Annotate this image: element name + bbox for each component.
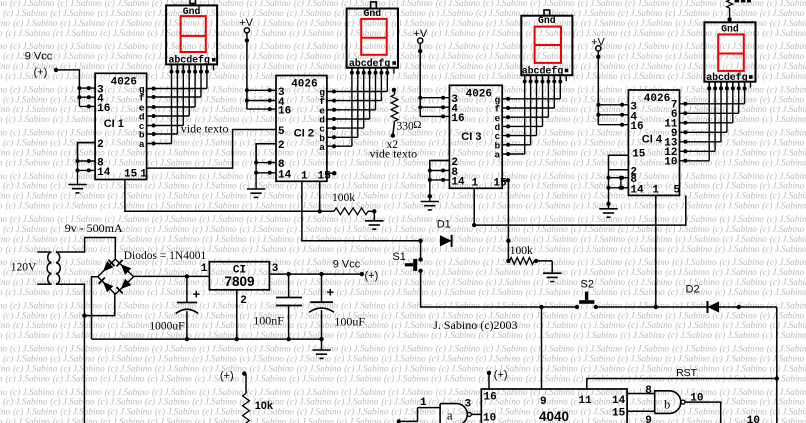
svg-text:(c) J.Sabino: (c) J.Sabino	[625, 41, 670, 51]
wire CI 1 pin 15 reset line to 100k	[125, 180, 334, 212]
IC CI 3 left pin labels 2 8 14	[451, 157, 465, 188]
svg-text:(c) J.Sabino: (c) J.Sabino	[713, 267, 758, 277]
svg-text:(c) J.Sabino: (c) J.Sabino	[0, 417, 3, 423]
display DISP1 7-segment module	[166, 5, 217, 64]
svg-text:(c) J.Sabino: (c) J.Sabino	[760, 310, 805, 320]
IC CI 4 bottom pin labels	[652, 184, 680, 196]
svg-text:(c) J.Sabino: (c) J.Sabino	[479, 28, 524, 38]
svg-text:(c) J.Sabino: (c) J.Sabino	[105, 344, 150, 354]
wire R1 to ground	[368, 209, 376, 220]
capacitor C2 100nF	[276, 274, 302, 339]
svg-text:(c) J.Sabino: (c) J.Sabino	[578, 257, 623, 267]
svg-text:(c) J.Sabino: (c) J.Sabino	[289, 244, 334, 254]
svg-text:(c) J.Sabino: (c) J.Sabino	[50, 354, 95, 364]
svg-text:15: 15	[632, 148, 646, 160]
svg-text:(c) J.Sabino: (c) J.Sabino	[388, 344, 433, 354]
svg-text:(c) J.Sabino: (c) J.Sabino	[10, 344, 55, 354]
svg-text:(c) J.Sabino: (c) J.Sabino	[3, 181, 48, 191]
svg-text:Gnd: Gnd	[363, 8, 381, 19]
svg-text:(c) J.Sabino: (c) J.Sabino	[578, 128, 623, 138]
svg-text:(c) J.Sabino: (c) J.Sabino	[483, 300, 528, 310]
svg-text:(c) J.Sabino: (c) J.Sabino	[242, 201, 287, 211]
svg-text:(c) J.Sabino: (c) J.Sabino	[713, 224, 758, 234]
svg-text:(c) J.Sabino: (c) J.Sabino	[10, 128, 55, 138]
svg-text:(c) J.Sabino: (c) J.Sabino	[384, 330, 429, 340]
svg-text:(c) J.Sabino: (c) J.Sabino	[297, 407, 342, 417]
svg-text:(c) J.Sabino: (c) J.Sabino	[289, 28, 334, 38]
svg-text:(c) J.Sabino: (c) J.Sabino	[0, 71, 3, 81]
svg-text:(c) J.Sabino: (c) J.Sabino	[665, 310, 710, 320]
4040 pin labels	[483, 392, 626, 423]
svg-text:CI 1: CI 1	[104, 118, 124, 130]
svg-text:(c) J.Sabino: (c) J.Sabino	[439, 18, 484, 28]
wire segment staircase CI 1 to DISP1	[147, 72, 207, 146]
diode D1	[440, 235, 452, 247]
svg-text:D1: D1	[437, 219, 451, 231]
svg-text:9 Vcc: 9 Vcc	[333, 258, 361, 270]
IC U1 4026 decade counter CI 1 box	[95, 73, 147, 179]
svg-text:(c) J.Sabino: (c) J.Sabino	[388, 387, 433, 397]
node S1 top junction	[418, 239, 422, 243]
wire S1 to S2/D2 net	[421, 271, 577, 307]
svg-text:(c) J.Sabino: (c) J.Sabino	[13, 18, 58, 28]
svg-text:(c) J.Sabino: (c) J.Sabino	[0, 330, 3, 340]
svg-text:(c) J.Sabino: (c) J.Sabino	[675, 320, 720, 330]
svg-text:J. Sabino (c)2003: J. Sabino (c)2003	[433, 318, 517, 332]
svg-text:(c) J.Sabino: (c) J.Sabino	[287, 8, 332, 18]
node 9Vcc output terminal	[333, 258, 379, 282]
wire secondary bottom (AC tap) long vertical	[56, 284, 85, 423]
svg-text:15: 15	[612, 407, 626, 419]
svg-text:(c) J.Sabino: (c) J.Sabino	[429, 267, 474, 277]
svg-text:(c) J.Sabino: (c) J.Sabino	[381, 181, 426, 191]
svg-text:(c) J.Sabino: (c) J.Sabino	[762, 201, 806, 211]
svg-text:S1: S1	[392, 251, 405, 263]
svg-text:(c) J.Sabino: (c) J.Sabino	[760, 51, 805, 61]
svg-text:(c) J.Sabino: (c) J.Sabino	[571, 138, 616, 148]
svg-text:(c) J.Sabino: (c) J.Sabino	[668, 28, 713, 38]
svg-text:(c) J.Sabino: (c) J.Sabino	[526, 157, 571, 167]
resistor R2 100k	[506, 258, 552, 273]
junction dots power pins CI 4	[596, 103, 624, 127]
svg-text:16: 16	[451, 113, 464, 125]
svg-text:(c) J.Sabino: (c) J.Sabino	[105, 41, 150, 51]
capacitor C3 100uF electrolytic	[309, 274, 334, 339]
svg-text:(c) J.Sabino: (c) J.Sabino	[665, 8, 710, 18]
svg-text:(c) J.Sabino: (c) J.Sabino	[0, 84, 7, 94]
svg-text:(c) J.Sabino: (c) J.Sabino	[337, 417, 382, 423]
svg-text:(c) J.Sabino: (c) J.Sabino	[760, 181, 805, 191]
svg-text:(c) J.Sabino: (c) J.Sabino	[53, 28, 98, 38]
svg-text:(c) J.Sabino: (c) J.Sabino	[250, 191, 295, 201]
wire +V to CI 2 power bus	[246, 33, 248, 109]
svg-text:(c) J.Sabino: (c) J.Sabino	[341, 344, 386, 354]
svg-text:1: 1	[140, 169, 147, 181]
svg-text:(c) J.Sabino: (c) J.Sabino	[762, 417, 806, 423]
node CI 3 ground bus bottom dot	[428, 194, 432, 198]
svg-text:(c) J.Sabino: (c) J.Sabino	[242, 244, 287, 254]
svg-text:(c) J.Sabino: (c) J.Sabino	[3, 138, 48, 148]
svg-text:(c) J.Sabino: (c) J.Sabino	[13, 320, 58, 330]
svg-text:(c) J.Sabino: (c) J.Sabino	[337, 330, 382, 340]
svg-text:(c) J.Sabino: (c) J.Sabino	[155, 363, 200, 373]
svg-text:(c) J.Sabino: (c) J.Sabino	[573, 71, 618, 81]
wire 7809 output 9Vcc row	[269, 273, 361, 275]
svg-text:(c) J.Sabino: (c) J.Sabino	[620, 71, 665, 81]
svg-text:(c) J.Sabino: (c) J.Sabino	[3, 224, 48, 234]
svg-text:(c) J.Sabino: (c) J.Sabino	[57, 344, 102, 354]
svg-text:(c) J.Sabino: (c) J.Sabino	[762, 157, 806, 167]
svg-text:(c) J.Sabino: (c) J.Sabino	[762, 114, 806, 124]
svg-text:(c) J.Sabino: (c) J.Sabino	[762, 28, 806, 38]
svg-text:(c) J.Sabino: (c) J.Sabino	[287, 267, 332, 277]
svg-text:(c) J.Sabino: (c) J.Sabino	[152, 41, 197, 51]
svg-text:(c) J.Sabino: (c) J.Sabino	[199, 84, 244, 94]
svg-text:(c) J.Sabino: (c) J.Sabino	[767, 214, 806, 224]
IC U4 4026 decade counter CI 4 box	[628, 90, 679, 195]
display DISP3 red segment figure	[535, 27, 561, 63]
capacitor C1 1000uF electrolytic	[176, 276, 198, 339]
node (+) 9Vcc supply top-left	[25, 51, 53, 79]
svg-text:(c) J.Sabino: (c) J.Sabino	[720, 41, 765, 51]
svg-text:(c) J.Sabino: (c) J.Sabino	[152, 171, 197, 181]
svg-text:(c) J.Sabino: (c) J.Sabino	[767, 344, 806, 354]
svg-text:(c) J.Sabino: (c) J.Sabino	[108, 363, 153, 373]
svg-text:(c) J.Sabino: (c) J.Sabino	[439, 363, 484, 373]
svg-text:(c) J.Sabino: (c) J.Sabino	[436, 344, 481, 354]
svg-text:(c) J.Sabino: (c) J.Sabino	[625, 214, 670, 224]
svg-text:(c) J.Sabino: (c) J.Sabino	[767, 257, 806, 267]
svg-text:(c) J.Sabino: (c) J.Sabino	[620, 201, 665, 211]
svg-text:(c) J.Sabino: (c) J.Sabino	[431, 71, 476, 81]
svg-text:(c) J.Sabino: (c) J.Sabino	[294, 214, 339, 224]
svg-text:(c) J.Sabino: (c) J.Sabino	[0, 171, 7, 181]
svg-text:(c) J.Sabino: (c) J.Sabino	[155, 18, 200, 28]
svg-text:(c) J.Sabino: (c) J.Sabino	[0, 257, 7, 267]
junction dots power pins CI 2	[245, 88, 272, 111]
svg-text:(c) J.Sabino: (c) J.Sabino	[294, 344, 339, 354]
svg-text:+V: +V	[591, 37, 605, 49]
svg-text:14: 14	[97, 167, 111, 179]
IC CI 1 right segment pin labels	[139, 84, 145, 150]
svg-text:(c) J.Sabino: (c) J.Sabino	[98, 8, 143, 18]
svg-text:(c) J.Sabino: (c) J.Sabino	[195, 417, 240, 423]
svg-text:(c) J.Sabino: (c) J.Sabino	[294, 41, 339, 51]
IC CI 1 bottom pin labels	[124, 169, 147, 181]
svg-text:(c) J.Sabino: (c) J.Sabino	[334, 354, 379, 364]
svg-text:(c) J.Sabino: (c) J.Sabino	[152, 387, 197, 397]
svg-text:(c) J.Sabino: (c) J.Sabino	[523, 310, 568, 320]
junction dots power pins CI 3	[418, 96, 445, 119]
svg-text:(c) J.Sabino: (c) J.Sabino	[620, 244, 665, 254]
display DISP4 top resistor (clipped) and wire	[727, 0, 751, 22]
svg-text:(c) J.Sabino: (c) J.Sabino	[0, 157, 3, 167]
svg-text:vide texto: vide texto	[370, 146, 418, 160]
svg-text:(c) J.Sabino: (c) J.Sabino	[628, 234, 673, 244]
svg-text:(c) J.Sabino: (c) J.Sabino	[250, 18, 295, 28]
svg-text:CI 2: CI 2	[294, 128, 314, 140]
svg-text:14: 14	[630, 184, 644, 196]
wire RST vertical right side	[776, 307, 778, 423]
svg-text:100uF: 100uF	[334, 314, 365, 328]
ground symbol of CI 1	[68, 185, 86, 193]
svg-text:(c) J.Sabino: (c) J.Sabino	[202, 104, 247, 114]
svg-text:(c) J.Sabino: (c) J.Sabino	[530, 344, 575, 354]
svg-text:(c) J.Sabino: (c) J.Sabino	[479, 201, 524, 211]
node 100nF junction	[286, 272, 290, 276]
svg-text:2: 2	[97, 139, 104, 151]
svg-text:(c) J.Sabino: (c) J.Sabino	[240, 354, 285, 364]
wire rail to ground	[321, 339, 323, 349]
wire CI 4 pin 1 down	[655, 195, 657, 307]
svg-text:(c) J.Sabino: (c) J.Sabino	[50, 267, 95, 277]
svg-text:(c) J.Sabino: (c) J.Sabino	[247, 344, 292, 354]
display DISP3 7-segment module	[521, 16, 572, 75]
switch S1 (pushbutton)	[405, 241, 423, 273]
svg-text:(c) J.Sabino: (c) J.Sabino	[50, 397, 95, 407]
display DISP1 pin letters abcdefg.	[168, 55, 215, 67]
svg-text:(c) J.Sabino: (c) J.Sabino	[53, 373, 98, 383]
svg-text:(c) J.Sabino: (c) J.Sabino	[720, 171, 765, 181]
svg-text:(c) J.Sabino: (c) J.Sabino	[429, 51, 474, 61]
svg-text:(c) J.Sabino: (c) J.Sabino	[108, 104, 153, 114]
IC CI 1 left pin labels 3 4 16	[97, 85, 110, 115]
svg-text:Diodos = 1N4001: Diodos = 1N4001	[124, 250, 207, 262]
svg-text:(c) J.Sabino: (c) J.Sabino	[108, 234, 153, 244]
svg-text:(c) J.Sabino: (c) J.Sabino	[0, 363, 10, 373]
svg-text:(c) J.Sabino: (c) J.Sabino	[533, 191, 578, 201]
svg-text:(c) J.Sabino: (c) J.Sabino	[152, 344, 197, 354]
svg-text:(c) J.Sabino: (c) J.Sabino	[98, 51, 143, 61]
svg-text:(c) J.Sabino: (c) J.Sabino	[145, 397, 190, 407]
svg-text:9: 9	[540, 396, 547, 408]
svg-text:(c) J.Sabino: (c) J.Sabino	[672, 214, 717, 224]
svg-text:(c) J.Sabino: (c) J.Sabino	[571, 267, 616, 277]
node 100uF junction	[319, 272, 323, 276]
svg-text:(c) J.Sabino: (c) J.Sabino	[767, 0, 806, 8]
svg-text:(c) J.Sabino: (c) J.Sabino	[381, 224, 426, 234]
wire +V to CI 3 power bus	[419, 43, 421, 116]
svg-text:(c) J.Sabino: (c) J.Sabino	[723, 234, 768, 244]
svg-text:100k: 100k	[510, 245, 533, 257]
label 330 ohm	[397, 119, 422, 133]
svg-text:(c) J.Sabino: (c) J.Sabino	[145, 181, 190, 191]
node 4040 pin9 branch	[539, 305, 543, 309]
svg-text:(c) J.Sabino: (c) J.Sabino	[202, 407, 247, 417]
display DISP2 pin letters abcdefg.	[349, 58, 396, 70]
svg-text:(c) J.Sabino: (c) J.Sabino	[573, 244, 618, 254]
svg-text:(c) J.Sabino: (c) J.Sabino	[247, 387, 292, 397]
svg-text:(c) J.Sabino: (c) J.Sabino	[341, 214, 386, 224]
svg-text:(+): (+)	[34, 67, 48, 79]
IC CI 1 left pin labels 2 8 14	[97, 139, 111, 179]
svg-text:(c) J.Sabino: (c) J.Sabino	[294, 387, 339, 397]
svg-text:(c) J.Sabino: (c) J.Sabino	[0, 28, 3, 38]
svg-text:(c) J.Sabino: (c) J.Sabino	[571, 8, 616, 18]
svg-text:(c) J.Sabino: (c) J.Sabino	[388, 171, 433, 181]
svg-text:(c) J.Sabino: (c) J.Sabino	[767, 41, 806, 51]
svg-text:(c) J.Sabino: (c) J.Sabino	[715, 244, 760, 254]
svg-text:14: 14	[612, 395, 626, 407]
svg-text:(c) J.Sabino: (c) J.Sabino	[199, 0, 244, 8]
svg-text:(c) J.Sabino: (c) J.Sabino	[240, 224, 285, 234]
svg-text:(c) J.Sabino: (c) J.Sabino	[152, 84, 197, 94]
IC CI 2 left pin labels 3 4 16	[278, 87, 291, 118]
display DISP3 pin wires and junction dots	[523, 75, 567, 83]
svg-text:(c) J.Sabino: (c) J.Sabino	[760, 397, 805, 407]
svg-text:1: 1	[652, 184, 659, 196]
svg-text:(c) J.Sabino: (c) J.Sabino	[479, 71, 524, 81]
svg-text:15: 15	[124, 169, 138, 181]
svg-text:(c) J.Sabino: (c) J.Sabino	[100, 201, 145, 211]
svg-text:16: 16	[278, 106, 291, 118]
ground R1	[365, 221, 383, 229]
svg-text:(c) J.Sabino: (c) J.Sabino	[723, 320, 768, 330]
svg-text:(c) J.Sabino: (c) J.Sabino	[431, 244, 476, 254]
svg-text:(c) J.Sabino: (c) J.Sabino	[767, 84, 806, 94]
svg-text:(c) J.Sabino: (c) J.Sabino	[486, 363, 531, 373]
svg-text:(c) J.Sabino: (c) J.Sabino	[334, 181, 379, 191]
svg-text:(c) J.Sabino: (c) J.Sabino	[486, 18, 531, 28]
svg-text:(c) J.Sabino: (c) J.Sabino	[571, 51, 616, 61]
svg-text:16: 16	[484, 392, 497, 404]
node +V terminal for CI 2	[239, 17, 253, 33]
svg-text:(c) J.Sabino: (c) J.Sabino	[381, 310, 426, 320]
svg-text:vide texto: vide texto	[181, 122, 229, 136]
display DISP1 pin wires and junction dots	[170, 64, 214, 73]
svg-text:5: 5	[674, 184, 681, 196]
svg-text:(c) J.Sabino: (c) J.Sabino	[250, 61, 295, 71]
resistor R1 100k (reset pull-down)	[334, 208, 368, 215]
svg-text:(c) J.Sabino: (c) J.Sabino	[533, 277, 578, 287]
svg-text:(c) J.Sabino: (c) J.Sabino	[672, 41, 717, 51]
svg-text:4026: 4026	[644, 93, 670, 105]
wire gate b inputs from 4040 pins 14 15	[627, 394, 655, 412]
wire gate b output down	[685, 402, 721, 423]
svg-text:(c) J.Sabino: (c) J.Sabino	[762, 287, 806, 297]
svg-text:(c) J.Sabino: (c) J.Sabino	[720, 344, 765, 354]
svg-text:(c) J.Sabino: (c) J.Sabino	[723, 277, 768, 287]
svg-text:(c) J.Sabino: (c) J.Sabino	[53, 201, 98, 211]
display DISP2 red segment figure	[361, 19, 387, 55]
svg-text:330: 330	[397, 121, 415, 133]
svg-text:(c) J.Sabino: (c) J.Sabino	[439, 61, 484, 71]
svg-text:(c) J.Sabino: (c) J.Sabino	[476, 51, 521, 61]
svg-text:(c) J.Sabino: (c) J.Sabino	[618, 8, 663, 18]
svg-text:(c) J.Sabino: (c) J.Sabino	[108, 18, 153, 28]
svg-text:(c) J.Sabino: (c) J.Sabino	[192, 310, 237, 320]
svg-text:(c) J.Sabino: (c) J.Sabino	[625, 257, 670, 267]
svg-text:(c) J.Sabino: (c) J.Sabino	[341, 171, 386, 181]
node +V terminal for CI 4	[591, 37, 605, 51]
wire CI 3 pin 15 stub	[502, 178, 510, 182]
svg-text:(c) J.Sabino: (c) J.Sabino	[760, 224, 805, 234]
svg-text:(c) J.Sabino: (c) J.Sabino	[770, 363, 806, 373]
svg-text:(c) J.Sabino: (c) J.Sabino	[720, 257, 765, 267]
svg-text:(c) J.Sabino: (c) J.Sabino	[6, 201, 51, 211]
svg-text:(c) J.Sabino: (c) J.Sabino	[715, 201, 760, 211]
svg-text:(c) J.Sabino: (c) J.Sabino	[98, 181, 143, 191]
svg-text:(c) J.Sabino: (c) J.Sabino	[715, 287, 760, 297]
transformer T1	[37, 252, 60, 284]
svg-text:(c) J.Sabino: (c) J.Sabino	[720, 300, 765, 310]
svg-text:(c) J.Sabino: (c) J.Sabino	[483, 214, 528, 224]
svg-text:(c) J.Sabino: (c) J.Sabino	[10, 300, 55, 310]
svg-text:(c) J.Sabino: (c) J.Sabino	[0, 18, 10, 28]
svg-text:(c) J.Sabino: (c) J.Sabino	[723, 147, 768, 157]
svg-text:(c) J.Sabino: (c) J.Sabino	[287, 51, 332, 61]
svg-text:(c) J.Sabino: (c) J.Sabino	[13, 407, 58, 417]
svg-text:8: 8	[645, 385, 652, 397]
svg-text:(c) J.Sabino: (c) J.Sabino	[250, 363, 295, 373]
svg-text:(c) J.Sabino: (c) J.Sabino	[147, 417, 192, 423]
svg-text:(c) J.Sabino: (c) J.Sabino	[479, 157, 524, 167]
svg-text:(c) J.Sabino: (c) J.Sabino	[192, 397, 237, 407]
svg-text:(c) J.Sabino: (c) J.Sabino	[668, 244, 713, 254]
svg-text:(c) J.Sabino: (c) J.Sabino	[0, 214, 7, 224]
svg-text:S2: S2	[581, 279, 594, 291]
svg-text:(c) J.Sabino: (c) J.Sabino	[476, 8, 521, 18]
wire 4040 pin16	[488, 373, 490, 389]
svg-text:(c) J.Sabino: (c) J.Sabino	[247, 214, 292, 224]
svg-text:(c) J.Sabino: (c) J.Sabino	[675, 191, 720, 201]
svg-text:(c) J.Sabino: (c) J.Sabino	[578, 0, 623, 8]
display DISP4 pin letters abcdefg.	[706, 72, 752, 84]
svg-text:(c) J.Sabino: (c) J.Sabino	[337, 373, 382, 383]
svg-text:(c) J.Sabino: (c) J.Sabino	[581, 234, 626, 244]
svg-text:(c) J.Sabino: (c) J.Sabino	[98, 354, 143, 364]
svg-text:(c) J.Sabino: (c) J.Sabino	[391, 234, 436, 244]
svg-text:(c) J.Sabino: (c) J.Sabino	[720, 214, 765, 224]
svg-text:(c) J.Sabino: (c) J.Sabino	[675, 147, 720, 157]
svg-text:(c) J.Sabino: (c) J.Sabino	[767, 171, 806, 181]
svg-text:(c) J.Sabino: (c) J.Sabino	[573, 157, 618, 167]
svg-text:(c) J.Sabino: (c) J.Sabino	[388, 41, 433, 51]
svg-text:(c) J.Sabino: (c) J.Sabino	[530, 41, 575, 51]
svg-text:(c) J.Sabino: (c) J.Sabino	[13, 191, 58, 201]
svg-text:(c) J.Sabino: (c) J.Sabino	[391, 363, 436, 373]
svg-text:(c) J.Sabino: (c) J.Sabino	[762, 244, 806, 254]
svg-text:(c) J.Sabino: (c) J.Sabino	[195, 201, 240, 211]
node CI 4 pins 8-14 tie dots	[619, 176, 623, 190]
svg-text:(c) J.Sabino: (c) J.Sabino	[571, 397, 616, 407]
svg-text:(c) J.Sabino: (c) J.Sabino	[391, 320, 436, 330]
svg-text:(c) J.Sabino: (c) J.Sabino	[98, 397, 143, 407]
svg-text:(c) J.Sabino: (c) J.Sabino	[0, 373, 3, 383]
svg-text:(c) J.Sabino: (c) J.Sabino	[672, 257, 717, 267]
svg-text:(c) J.Sabino: (c) J.Sabino	[384, 373, 429, 383]
svg-text:(c) J.Sabino: (c) J.Sabino	[429, 224, 474, 234]
svg-text:(c) J.Sabino: (c) J.Sabino	[247, 41, 292, 51]
svg-text:(c) J.Sabino: (c) J.Sabino	[665, 181, 710, 191]
svg-text:4026: 4026	[466, 89, 492, 101]
svg-text:(c) J.Sabino: (c) J.Sabino	[199, 171, 244, 181]
svg-text:(c) J.Sabino: (c) J.Sabino	[620, 287, 665, 297]
svg-text:(c) J.Sabino: (c) J.Sabino	[147, 287, 192, 297]
svg-text:10k: 10k	[255, 400, 274, 412]
svg-text:(c) J.Sabino: (c) J.Sabino	[13, 104, 58, 114]
svg-text:(c) J.Sabino: (c) J.Sabino	[675, 61, 720, 71]
svg-text:(c) J.Sabino: (c) J.Sabino	[770, 320, 806, 330]
svg-text:(c) J.Sabino: (c) J.Sabino	[628, 18, 673, 28]
svg-text:(c) J.Sabino: (c) J.Sabino	[334, 94, 379, 104]
svg-text:11: 11	[579, 395, 593, 407]
svg-text:(c) J.Sabino: (c) J.Sabino	[60, 191, 105, 201]
wire ground bus of CI 1	[78, 143, 96, 185]
ground R2	[543, 273, 561, 281]
svg-text:(c) J.Sabino: (c) J.Sabino	[344, 234, 389, 244]
svg-text:15: 15	[493, 177, 507, 189]
